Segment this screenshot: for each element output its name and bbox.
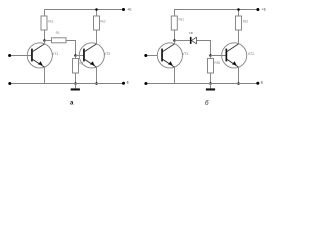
ground symbol a <box>71 84 80 91</box>
wire R2 bottom to ground rail <box>75 73 77 84</box>
node Rk2 at top rail <box>95 8 98 11</box>
svg-text:Rб2: Rб2 <box>214 61 220 65</box>
resistor Rk2 b <box>236 16 249 30</box>
wire node to R1 <box>45 40 52 42</box>
wire Rk2 top to rail <box>96 10 98 17</box>
terminal input a bottom <box>8 82 11 85</box>
svg-text:+E: +E <box>127 8 132 12</box>
svg-text:б: б <box>205 100 209 107</box>
wire node B b to R2 b <box>210 56 212 59</box>
transistor VT2 b <box>222 30 254 84</box>
node VT1 collector junction <box>43 39 46 42</box>
transistor VT1 b <box>157 41 188 84</box>
resistor Rk1 <box>41 16 54 30</box>
wire Rk1 bottom to collector node <box>44 30 46 41</box>
diode VD <box>189 31 197 44</box>
wire R2 b bottom to ground rail <box>210 73 212 84</box>
wire input to VT1 base <box>10 55 32 57</box>
resistor Rk1 b <box>171 16 184 30</box>
resistor R1 <box>52 31 67 43</box>
wire R1 to node B <box>66 41 76 56</box>
node R2 at bottom rail <box>74 82 77 85</box>
resistor R2 <box>73 59 84 74</box>
node Rk2 b at top rail <box>237 8 240 11</box>
wire node to diode <box>175 40 190 42</box>
svg-text:а: а <box>70 99 74 106</box>
svg-text:-E: -E <box>126 81 130 85</box>
svg-text:+E: +E <box>262 8 267 12</box>
terminal +E a <box>122 8 132 12</box>
svg-text:VT2: VT2 <box>248 52 254 56</box>
svg-text:Rк1: Rк1 <box>179 18 185 22</box>
svg-text:Rк2: Rк2 <box>100 19 106 23</box>
transistor VT1 <box>27 41 58 84</box>
terminal +E b <box>256 8 266 12</box>
terminal input b bottom <box>144 82 147 85</box>
wire input to VT1 b base <box>146 55 158 57</box>
wire bottom rail b <box>146 83 258 85</box>
resistor Rk2 <box>94 16 106 30</box>
node VT1 b collector junction <box>173 39 176 42</box>
transistor VT2 <box>79 30 110 84</box>
terminal -E a <box>122 81 130 85</box>
terminal input b top <box>144 54 147 57</box>
terminal -E b <box>256 81 264 85</box>
wire Rk1 b bottom to collector node <box>174 30 176 41</box>
wire top supply rail a <box>45 10 124 17</box>
wire node B to R2 <box>75 56 77 59</box>
node VT2 b emitter at bottom rail <box>237 82 240 85</box>
terminal input a top <box>8 54 11 57</box>
svg-text:VT1: VT1 <box>52 52 58 56</box>
svg-text:VT1: VT1 <box>182 52 188 56</box>
svg-text:-E: -E <box>260 81 264 85</box>
node VT2 emitter at bottom rail <box>95 82 98 85</box>
svg-text:Rк2: Rк2 <box>243 19 249 23</box>
wire node B b to VT2 base <box>211 55 227 57</box>
ground symbol b <box>206 84 215 91</box>
wire top supply rail b <box>175 10 258 17</box>
resistor R2 b <box>208 59 221 74</box>
svg-text:Rк1: Rк1 <box>48 19 54 23</box>
svg-text:VD: VD <box>189 31 194 35</box>
wire node B to VT2 base <box>76 55 84 57</box>
node B b (VT2 base junction) <box>209 54 212 57</box>
svg-text:VT2: VT2 <box>104 52 110 56</box>
wire Rk2 b top to rail <box>238 10 240 17</box>
wire diode to node B b <box>196 41 210 56</box>
node B (VT2 base junction) <box>74 54 77 57</box>
node R2 b at bottom rail <box>209 82 212 85</box>
wire bottom rail a <box>10 83 124 85</box>
svg-text:R1: R1 <box>56 31 60 35</box>
